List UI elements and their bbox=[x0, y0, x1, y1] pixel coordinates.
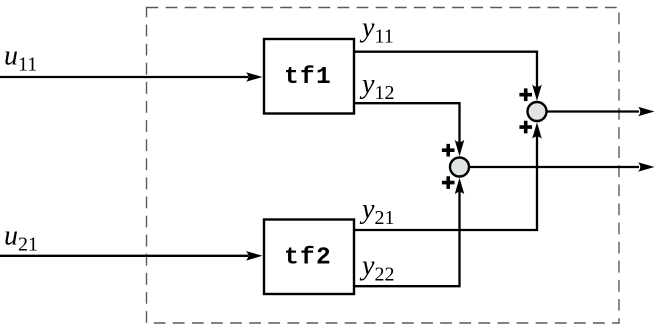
arrowhead output 2 bbox=[638, 162, 655, 172]
system boundary (dashed box) bbox=[147, 8, 620, 324]
svg-text:u11: u11 bbox=[4, 41, 37, 76]
svg-text:y11: y11 bbox=[359, 13, 394, 48]
wire y12: tf1 bottom output to summer S2 bbox=[353, 103, 460, 142]
arrowhead into S2 top bbox=[455, 140, 465, 157]
wire y22: tf2 bottom output to summer S2 bbox=[353, 192, 460, 286]
arrowhead output 1 bbox=[638, 107, 655, 117]
summer S1 (summing junction) bbox=[528, 102, 547, 121]
wire output 1 from S1 bbox=[547, 110, 640, 112]
wire y21: tf2 top output to summer S1 bbox=[353, 136, 537, 230]
arrowhead into S1 top bbox=[532, 85, 542, 102]
block tf2 bbox=[264, 220, 354, 295]
wire u11 input bbox=[0, 76, 248, 78]
svg-text:y21: y21 bbox=[359, 194, 394, 229]
plus sign S1 top bbox=[519, 88, 532, 101]
plus sign S2 top bbox=[442, 144, 455, 157]
svg-text:tf1: tf1 bbox=[284, 64, 332, 91]
arrowhead into tf1 bbox=[246, 72, 263, 82]
svg-text:u21: u21 bbox=[4, 221, 38, 256]
summer S2 (summing junction) bbox=[450, 158, 469, 177]
plus sign S1 bottom bbox=[519, 121, 532, 134]
wire u21 input bbox=[0, 255, 248, 257]
arrowhead into S1 bottom bbox=[532, 122, 542, 139]
block tf1 bbox=[264, 39, 354, 114]
svg-text:tf2: tf2 bbox=[284, 245, 332, 272]
svg-text:y12: y12 bbox=[359, 69, 394, 104]
plus sign S2 bottom bbox=[442, 176, 455, 189]
svg-text:y22: y22 bbox=[359, 251, 394, 286]
arrowhead into tf2 bbox=[246, 251, 263, 261]
wire y11: tf1 top output to summer S1 bbox=[353, 52, 537, 87]
arrowhead into S2 bottom bbox=[455, 178, 465, 195]
wire output 2 from S2 bbox=[469, 166, 639, 168]
